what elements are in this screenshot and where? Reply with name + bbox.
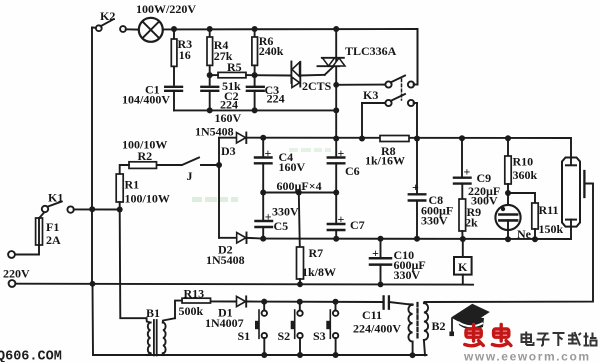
diac 2CTS xyxy=(291,62,333,88)
node C5 bottom xyxy=(260,236,266,242)
svg-text:R10: R10 xyxy=(513,155,534,169)
svg-text:224: 224 xyxy=(220,98,238,112)
terminal 220V upper xyxy=(8,251,15,258)
svg-text:2A: 2A xyxy=(46,233,61,247)
svg-text:100/10W: 100/10W xyxy=(125,192,170,206)
capacitor C5 xyxy=(256,193,273,239)
node R7 top tap xyxy=(296,190,302,196)
node C7 bottom xyxy=(333,236,339,242)
node J xyxy=(216,162,222,168)
terminal 220V lower xyxy=(9,280,16,287)
node C3 bottom xyxy=(252,107,258,113)
capacitor C6 xyxy=(328,139,345,193)
svg-text:220V: 220V xyxy=(3,267,30,281)
svg-text:R2: R2 xyxy=(138,149,153,163)
pushbutton S3 xyxy=(326,302,338,355)
svg-text:1N4007: 1N4007 xyxy=(205,316,244,330)
wire J riser xyxy=(218,138,220,238)
capacitor C1 xyxy=(165,87,182,111)
svg-text:224: 224 xyxy=(267,92,285,106)
svg-text:TLC336A: TLC336A xyxy=(345,44,397,58)
svg-text:R11: R11 xyxy=(539,203,559,217)
watermark text dianzi xiazaizhan xyxy=(522,332,597,347)
resistor R3 xyxy=(171,29,177,85)
svg-text:K: K xyxy=(458,260,468,274)
node Ne bottom xyxy=(505,236,511,242)
svg-text:+: + xyxy=(372,246,379,260)
svg-text:R1: R1 xyxy=(125,178,140,192)
svg-text:C9: C9 xyxy=(477,171,492,185)
svg-text:K2: K2 xyxy=(100,9,115,23)
diode D2 xyxy=(219,233,263,244)
resistor R6 xyxy=(252,29,258,75)
svg-text:C5: C5 xyxy=(274,219,289,233)
resistor R5 xyxy=(210,72,291,77)
node mid bus C9 xyxy=(459,135,465,141)
fluorescent tube xyxy=(562,158,580,227)
svg-text:160V: 160V xyxy=(279,160,306,174)
svg-text:224/400V: 224/400V xyxy=(353,322,401,336)
switch K3 lower xyxy=(362,79,417,139)
svg-text:150k: 150k xyxy=(539,222,564,236)
svg-text:2CTS: 2CTS xyxy=(302,79,332,93)
node mid bus K3 left xyxy=(359,136,365,142)
svg-text:C11: C11 xyxy=(362,308,382,322)
resistor R2 xyxy=(129,162,157,169)
node top triac xyxy=(333,26,339,32)
node triac bottom xyxy=(333,82,339,88)
wire left rail xyxy=(91,28,93,284)
svg-text:B2: B2 xyxy=(432,319,446,333)
svg-text:Ne: Ne xyxy=(517,227,532,241)
svg-text:D3: D3 xyxy=(221,144,236,158)
node K1 rail xyxy=(89,206,95,212)
capacitor C4 xyxy=(255,138,272,193)
fuse F1 xyxy=(15,212,44,254)
svg-text:K1: K1 xyxy=(48,191,63,205)
watermark eeworm logo cap xyxy=(449,304,489,336)
capacitor C10 xyxy=(370,239,391,285)
node 220V rail xyxy=(90,281,96,287)
svg-text:C7: C7 xyxy=(350,218,365,232)
switch K1 xyxy=(42,202,120,213)
svg-text:1k/16W: 1k/16W xyxy=(365,154,405,168)
svg-text:600µF×4: 600µF×4 xyxy=(277,179,322,193)
node S1 top xyxy=(261,299,267,305)
wire low bank bus y239 xyxy=(263,227,571,239)
svg-text:500k: 500k xyxy=(179,304,204,318)
node R9-K xyxy=(460,236,466,242)
diode D3 xyxy=(219,133,246,144)
wire top bus xyxy=(163,29,418,82)
resistor R1 xyxy=(116,165,129,210)
node top R3 xyxy=(171,26,177,32)
svg-text:160V: 160V xyxy=(215,111,242,125)
capacitor C9 xyxy=(454,138,471,199)
svg-text:330V: 330V xyxy=(421,214,448,228)
node R7 bottom xyxy=(297,281,303,287)
neon lamp Ne xyxy=(495,193,520,239)
pushbutton S1 xyxy=(255,302,267,355)
svg-text:R5: R5 xyxy=(227,60,242,74)
svg-text:C6: C6 xyxy=(345,164,360,178)
node C2 bottom xyxy=(207,107,213,113)
resistor R8 xyxy=(380,136,409,142)
resistor R4 xyxy=(207,29,213,85)
svg-text:+: + xyxy=(265,210,272,224)
watermark green ghost 2 xyxy=(289,148,331,152)
node R6-R5 xyxy=(252,72,258,78)
wire R1 to B1 xyxy=(120,210,147,319)
node R1 bottom xyxy=(117,207,123,213)
node S1 bottom xyxy=(261,352,267,358)
node C10 top xyxy=(378,236,384,242)
svg-text:S2: S2 xyxy=(278,329,291,343)
triac TLC336A xyxy=(318,29,346,85)
resistor R13 xyxy=(175,298,211,318)
resistor R11 xyxy=(508,193,538,239)
svg-text:+: + xyxy=(412,180,419,194)
wire triac down to mid bus xyxy=(335,85,337,139)
node R4-R5 xyxy=(207,72,213,78)
node D3 cathode C4 xyxy=(260,135,266,141)
watermark green ghost 1 xyxy=(192,197,238,202)
node mid bus R8 right xyxy=(414,136,420,142)
svg-text:1N5408: 1N5408 xyxy=(206,253,245,267)
node S3 bottom xyxy=(333,352,339,358)
capacitor C2 xyxy=(201,87,218,111)
switch K3 upper xyxy=(336,29,417,88)
svg-text:330V: 330V xyxy=(272,205,299,219)
node R10 bottom xyxy=(505,190,511,196)
wire left rail lower xyxy=(93,283,427,355)
node C10 bottom xyxy=(378,282,384,288)
node top R6 xyxy=(252,26,258,32)
relay K box xyxy=(454,239,472,285)
node B2 left bottom xyxy=(410,352,416,358)
watermark chongchong char2 xyxy=(492,325,511,346)
svg-text:S3: S3 xyxy=(313,329,326,343)
node S2 bottom xyxy=(297,352,303,358)
node top R4 xyxy=(207,26,213,32)
diode D1 xyxy=(237,296,247,306)
svg-text:240k: 240k xyxy=(259,44,284,58)
svg-text:S1: S1 xyxy=(238,329,251,343)
capacitor C11 xyxy=(384,296,389,308)
node R11 bottom xyxy=(532,236,538,242)
svg-text:100W/220V: 100W/220V xyxy=(136,2,196,16)
wire 220V bus xyxy=(15,284,473,285)
svg-text:1N5408: 1N5408 xyxy=(195,125,234,139)
switch J xyxy=(157,158,220,166)
resistor R9 xyxy=(459,199,466,239)
svg-text:2k: 2k xyxy=(465,216,478,230)
node mid bus R10 xyxy=(505,135,511,141)
svg-text:R7: R7 xyxy=(309,246,324,260)
transformer B2 xyxy=(408,303,428,355)
wire mid bank bus y192 xyxy=(263,192,336,194)
svg-text:+: + xyxy=(265,146,272,160)
capacitor C7 xyxy=(328,193,345,239)
svg-text:B1: B1 xyxy=(146,306,160,320)
resistor R10 xyxy=(505,138,511,193)
node C4 bottom xyxy=(260,190,266,196)
watermark chongchong char1 xyxy=(465,325,484,346)
svg-text:330V: 330V xyxy=(394,268,421,282)
capacitor C3 xyxy=(247,75,264,110)
wire caps bottom bus 160V xyxy=(174,109,336,111)
resistor R7 xyxy=(297,193,304,285)
svg-text:+: + xyxy=(338,212,345,226)
wire mid bus xyxy=(247,138,572,158)
svg-text:K3: K3 xyxy=(363,88,378,102)
lamp 100W/220V xyxy=(139,18,163,42)
svg-text:Q606.COM: Q606.COM xyxy=(0,350,62,362)
pushbutton S2 xyxy=(291,302,303,355)
svg-text:www.eeworm.com: www.eeworm.com xyxy=(463,350,591,362)
transformer B1 xyxy=(147,318,176,355)
node S3 top xyxy=(333,299,339,305)
svg-text:16: 16 xyxy=(179,48,191,62)
switch K2 xyxy=(92,19,139,32)
node C6 bottom xyxy=(333,190,339,196)
svg-text:+: + xyxy=(338,146,345,160)
svg-text:R13: R13 xyxy=(184,287,205,301)
capacitor C8 xyxy=(409,139,426,239)
svg-text:J: J xyxy=(187,169,193,183)
svg-text:1k/8W: 1k/8W xyxy=(302,265,336,279)
svg-text:360k: 360k xyxy=(513,168,538,182)
svg-text:104/400V: 104/400V xyxy=(122,93,170,107)
node C8 bottom xyxy=(414,236,420,242)
node mid bus x336 xyxy=(333,136,339,142)
wire C11 row xyxy=(211,301,413,304)
node caps bus right xyxy=(333,107,339,113)
svg-text:+: + xyxy=(464,165,471,179)
tube starter electrode xyxy=(424,171,593,302)
node S2 top xyxy=(297,299,303,305)
